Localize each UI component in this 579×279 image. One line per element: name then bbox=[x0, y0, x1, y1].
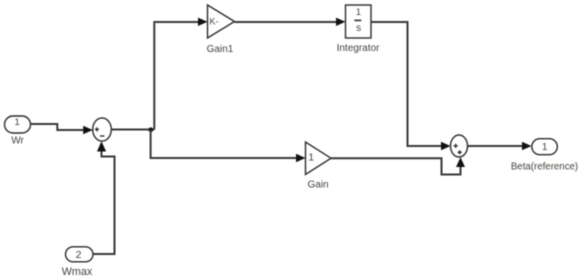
gain Gain1 bbox=[208, 5, 235, 38]
inport 2 Wmax bbox=[66, 247, 94, 262]
svg-text:1: 1 bbox=[15, 117, 20, 128]
inport 1 Wr bbox=[5, 116, 31, 133]
arrowhead into Gain bbox=[296, 154, 306, 162]
arrowhead into Sum1 bottom bbox=[97, 141, 106, 151]
arrowhead into Sum1 left bbox=[83, 126, 93, 134]
gain Gain bbox=[306, 142, 332, 175]
svg-text:Wmax: Wmax bbox=[62, 266, 93, 278]
svg-text:Beta(reference): Beta(reference) bbox=[511, 161, 578, 172]
sum Sum1 bbox=[93, 118, 112, 141]
svg-text:s: s bbox=[356, 23, 361, 34]
wire junction down to Gain bbox=[151, 130, 296, 159]
integrator Integrator bbox=[346, 5, 372, 38]
arrowhead into Sum2 left bbox=[441, 142, 451, 150]
outport 1 Beta(reference) bbox=[532, 139, 558, 155]
wire Gain to Sum2 bottom bbox=[331, 158, 461, 174]
svg-text:Gain: Gain bbox=[307, 180, 328, 191]
svg-text:Wr: Wr bbox=[11, 136, 24, 147]
wire junction up to Gain1 bbox=[154, 22, 198, 130]
wire Gain1 to Integrator bbox=[235, 21, 337, 23]
svg-text:1: 1 bbox=[308, 152, 314, 164]
wire Sum2 to outport bbox=[468, 145, 523, 147]
svg-text:1: 1 bbox=[356, 7, 361, 17]
svg-text:K-: K- bbox=[210, 17, 219, 27]
arrowhead into Gain1 bbox=[198, 18, 208, 26]
arrowhead into Sum2 bottom bbox=[456, 157, 465, 167]
wire Wmax to Sum1 bottom bbox=[93, 151, 115, 255]
svg-text:Integrator: Integrator bbox=[337, 43, 380, 54]
svg-text:1: 1 bbox=[542, 142, 548, 153]
svg-text:2: 2 bbox=[76, 249, 82, 261]
arrowhead into outport bbox=[522, 142, 532, 150]
svg-text:Gain1: Gain1 bbox=[207, 44, 234, 55]
wire Wr to Sum1 bbox=[31, 124, 84, 130]
sum Sum2 bbox=[451, 135, 468, 157]
arrowhead into Integrator bbox=[336, 18, 346, 26]
wire Sum1 output to junction bbox=[111, 129, 154, 131]
junction node dot bbox=[148, 127, 153, 132]
wire Integrator to Sum2 bbox=[371, 22, 441, 146]
